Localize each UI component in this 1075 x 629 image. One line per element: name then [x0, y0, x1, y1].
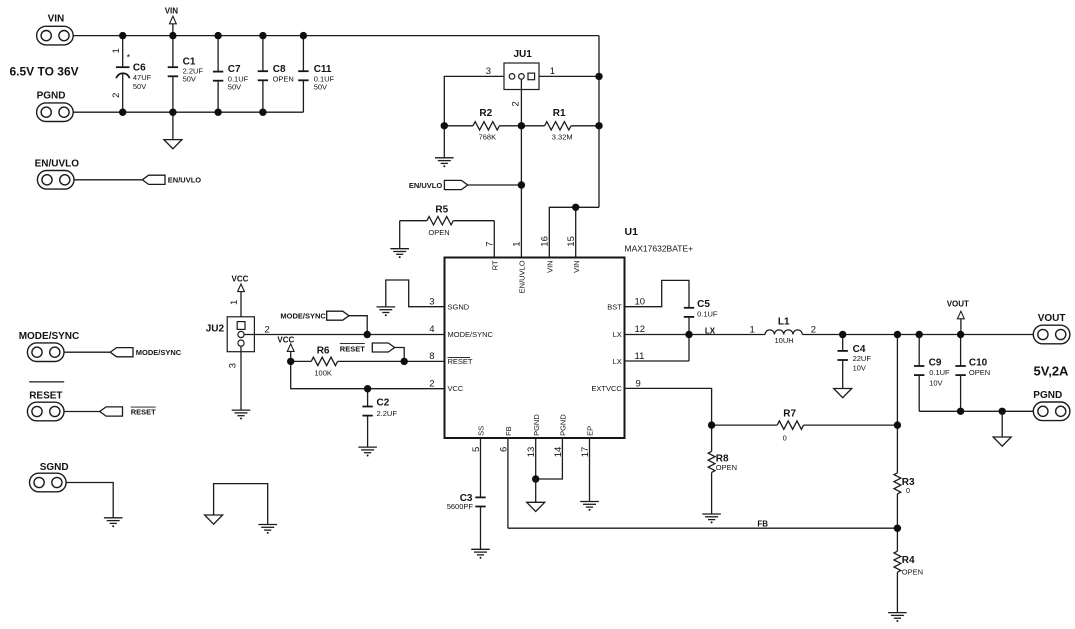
capacitor C9: [914, 335, 950, 412]
svg-text:5600PF: 5600PF: [447, 502, 474, 511]
svg-text:10V: 10V: [853, 363, 866, 372]
wire RESET tag to pin 8: [395, 348, 405, 362]
junction dots PGND rail: [119, 109, 267, 116]
U1 pin numbers left: [429, 296, 434, 389]
resistor R3: [894, 425, 915, 528]
power symbol VIN (top): [165, 7, 179, 36]
ground (R2): [435, 158, 454, 167]
junction dots U1 left area: [287, 331, 408, 393]
capacitor C4: [838, 335, 872, 389]
svg-text:MODE/SYNC: MODE/SYNC: [280, 311, 326, 320]
wire FB net: [508, 527, 898, 529]
svg-text:50V: 50V: [314, 82, 327, 91]
svg-text:SGND: SGND: [40, 462, 69, 473]
jumper JU1: [486, 49, 555, 106]
capacitor C10: [955, 335, 990, 412]
wire U1 pin 11 LX: [625, 360, 690, 362]
svg-text:9: 9: [636, 378, 641, 389]
wire R5 right to U1 pin 7: [493, 221, 495, 258]
U1 pin names top (rotated): [490, 260, 580, 293]
junction dot LX column: [685, 331, 692, 338]
wire U1 pin 17 EP to ground: [589, 438, 591, 501]
wire to VIN pins: [549, 207, 599, 257]
svg-text:*: *: [127, 53, 131, 63]
svg-text:0: 0: [906, 486, 910, 495]
wire PGND pins to ground: [535, 479, 537, 502]
svg-text:3: 3: [429, 296, 434, 307]
svg-text:2: 2: [265, 324, 270, 335]
svg-text:16: 16: [540, 236, 551, 247]
capacitor C11: [298, 36, 334, 113]
svg-text:OPEN: OPEN: [273, 74, 294, 83]
svg-text:JU2: JU2: [206, 323, 225, 334]
U1 pin names right: [591, 302, 622, 393]
ground (C3): [471, 549, 490, 558]
svg-text:8: 8: [429, 351, 434, 362]
svg-text:R4: R4: [902, 555, 915, 566]
wire MODE/SYNC tag to pin 4: [349, 316, 367, 335]
ground triangle (input): [164, 140, 182, 149]
svg-text:768K: 768K: [479, 132, 497, 141]
net tag MODE/SYNC (at U1): [280, 311, 349, 320]
svg-text:OPEN: OPEN: [716, 463, 737, 472]
resistor R8: [708, 425, 737, 514]
svg-text:VIN: VIN: [165, 7, 179, 16]
ground triangle (C4): [834, 389, 852, 398]
svg-text:C8: C8: [273, 64, 286, 75]
terminal VIN: [37, 13, 74, 45]
svg-text:MODE/SYNC: MODE/SYNC: [19, 331, 80, 342]
wire PGND rail: [73, 111, 303, 113]
wire R5 left to ground: [399, 221, 401, 249]
wire EN/UVLO terminal to tag: [74, 179, 142, 181]
svg-text:VIN: VIN: [572, 260, 581, 273]
svg-text:R7: R7: [783, 408, 796, 419]
svg-text:EN/UVLO: EN/UVLO: [168, 176, 202, 185]
wire U1 pins 13/14 PGND: [535, 438, 537, 479]
svg-text:C11: C11: [314, 64, 332, 75]
ground triangle (output): [993, 437, 1011, 446]
ground triangle (pins 13/14): [527, 502, 545, 511]
wire U1 pin 10 BST to C5: [625, 280, 690, 307]
capacitor C1: [168, 36, 204, 113]
svg-text:OPEN: OPEN: [428, 228, 449, 237]
svg-text:C10: C10: [969, 358, 988, 369]
wire JU2 pin 2 to U1 pin 4: [244, 334, 444, 336]
terminal RESET: [27, 382, 64, 421]
ground (EP): [580, 502, 599, 511]
svg-text:SS: SS: [477, 426, 486, 436]
junction dots R7/FB: [708, 421, 901, 532]
svg-text:JU1: JU1: [514, 49, 533, 60]
wire JU2 pin 3 to ground: [240, 346, 242, 410]
terminal MODE/SYNC: [19, 331, 80, 362]
svg-text:EP: EP: [586, 426, 595, 436]
ground (R4): [888, 613, 907, 622]
svg-text:VOUT: VOUT: [947, 300, 969, 309]
U1 pin numbers right: [635, 296, 646, 389]
svg-text:C9: C9: [929, 358, 942, 369]
power symbol VCC (JU2): [232, 274, 249, 316]
junction dots VOUT rail: [839, 331, 964, 338]
svg-text:EXTVCC: EXTVCC: [591, 384, 622, 393]
svg-text:0: 0: [783, 433, 787, 442]
svg-text:VCC: VCC: [277, 336, 294, 345]
wire U1 pin 12 LX to L1: [625, 334, 766, 336]
svg-text:R5: R5: [435, 204, 448, 215]
svg-text:VCC: VCC: [448, 384, 464, 393]
net tag EN/UVLO (at U1): [409, 180, 468, 190]
wire C1 to power ground: [172, 112, 174, 139]
ground (R5): [390, 249, 409, 258]
terminal PGND: [37, 90, 74, 121]
svg-text:2: 2: [510, 101, 521, 106]
svg-text:2: 2: [111, 93, 122, 98]
svg-text:VOUT: VOUT: [1038, 313, 1066, 324]
wire JU1 pin 2 down to U1 pin 1: [520, 79, 522, 257]
terminal EN/UVLO: [35, 159, 80, 190]
svg-text:15: 15: [566, 236, 577, 247]
svg-text:LX: LX: [705, 326, 716, 335]
svg-text:1: 1: [229, 300, 240, 305]
ground triangle (net-tie left): [205, 515, 223, 524]
wire VIN rail drop to JU1/R1 column: [598, 36, 600, 208]
svg-text:L1: L1: [778, 317, 790, 328]
wire SGND terminal to ground: [66, 483, 113, 518]
net tag RESET (left): [100, 407, 156, 417]
svg-text:50V: 50V: [133, 82, 146, 91]
wire U1 pin 9 EXTVCC: [625, 388, 712, 425]
svg-text:2: 2: [811, 324, 816, 335]
U1 pin numbers bottom (rotated): [471, 447, 591, 458]
svg-text:10V: 10V: [929, 379, 942, 388]
U1 pin numbers top (rotated): [485, 236, 577, 247]
svg-text:PGND: PGND: [1033, 390, 1062, 401]
svg-text:5V,2A: 5V,2A: [1034, 364, 1070, 379]
svg-text:SGND: SGND: [448, 302, 470, 311]
svg-text:MODE/SYNC: MODE/SYNC: [448, 330, 494, 339]
wire VOUT column down to R7: [896, 335, 898, 426]
svg-text:PGND: PGND: [532, 414, 541, 436]
svg-text:MAX17632BATE+: MAX17632BATE+: [625, 244, 694, 254]
capacitor C8: [258, 36, 294, 113]
wire VCC drop and U1 pin 2: [291, 361, 445, 388]
svg-text:VCC: VCC: [232, 274, 249, 283]
wire L1 to VOUT terminal: [802, 334, 1033, 336]
svg-text:OPEN: OPEN: [902, 567, 923, 576]
terminal PGND (output): [1033, 390, 1070, 421]
svg-text:VIN: VIN: [545, 260, 554, 273]
svg-text:LX: LX: [613, 330, 622, 339]
svg-text:1: 1: [512, 241, 523, 246]
wire net-tie PGND to SGND: [214, 484, 268, 525]
net tag RESET (at U1): [340, 343, 395, 353]
svg-text:7: 7: [485, 241, 496, 246]
ground (SGND terminal): [104, 518, 123, 527]
svg-text:50V: 50V: [183, 75, 196, 84]
svg-text:1: 1: [750, 324, 755, 335]
svg-text:C2: C2: [377, 398, 390, 409]
ground (pin 3): [377, 307, 396, 316]
svg-text:0.1UF: 0.1UF: [697, 310, 718, 319]
svg-text:47UF: 47UF: [133, 73, 152, 82]
svg-text:10UH: 10UH: [775, 336, 794, 345]
power symbol VOUT: [947, 300, 969, 335]
svg-text:RESET: RESET: [448, 357, 473, 366]
capacitor C5: [684, 299, 718, 361]
junction dots JU1 area: [441, 73, 603, 211]
svg-text:FB: FB: [504, 426, 513, 436]
svg-text:C7: C7: [228, 64, 241, 75]
wire RESET terminal to tag: [64, 411, 100, 413]
svg-text:6.5V TO 36V: 6.5V TO 36V: [10, 64, 79, 78]
ground (net-tie right): [258, 525, 277, 534]
net tag EN/UVLO (left): [142, 175, 201, 185]
svg-text:EN/UVLO: EN/UVLO: [409, 181, 443, 190]
svg-text:R2: R2: [479, 108, 492, 119]
svg-text:BST: BST: [607, 302, 622, 311]
junction dots output PGND rail: [957, 408, 1006, 415]
svg-text:EN/UVLO: EN/UVLO: [35, 159, 80, 170]
resistor R1: [521, 108, 599, 141]
wire output PGND rail: [919, 410, 1033, 412]
svg-text:RESET: RESET: [340, 344, 365, 353]
resistor R6: [291, 346, 445, 378]
inductor L1: [750, 317, 817, 345]
resistor R5: [400, 204, 495, 237]
net tag MODE/SYNC (left): [110, 348, 182, 358]
capacitor C7: [213, 36, 249, 113]
U1 pin names left: [448, 302, 494, 393]
svg-text:OPEN: OPEN: [969, 368, 990, 377]
svg-text:RESET: RESET: [29, 391, 62, 402]
junction dot PGND pins: [532, 475, 539, 482]
svg-text:R6: R6: [317, 346, 330, 357]
wire JU1 pin 1: [539, 75, 599, 77]
wire pin 15: [575, 207, 577, 257]
power symbol VCC (R6): [277, 336, 294, 362]
svg-text:2: 2: [429, 378, 434, 389]
resistor R2: [444, 108, 521, 141]
wire VIN rail: [73, 35, 599, 37]
wire output ground stem: [1001, 411, 1003, 437]
ground (C2): [358, 447, 377, 456]
capacitor C3: [447, 438, 486, 549]
svg-text:50V: 50V: [228, 82, 241, 91]
ground (R8): [702, 514, 721, 523]
svg-text:100K: 100K: [314, 369, 332, 378]
svg-text:PGND: PGND: [559, 414, 568, 436]
ground (JU2): [232, 410, 251, 419]
svg-text:VIN: VIN: [48, 13, 65, 24]
svg-text:RESET: RESET: [131, 408, 156, 417]
op-amp U1 MAX17632BATE+ body: [445, 226, 694, 438]
wire MODE/SYNC terminal to tag: [64, 351, 110, 353]
svg-text:10: 10: [635, 296, 646, 307]
terminal SGND: [30, 462, 69, 492]
wire R2 left to ground: [443, 126, 445, 158]
jumper JU2: [206, 300, 270, 368]
svg-text:R1: R1: [553, 108, 566, 119]
wire U1 pin 6 FB down: [507, 438, 509, 528]
svg-text:3: 3: [228, 363, 239, 368]
resistor R7: [712, 408, 898, 442]
svg-text:0.1UF: 0.1UF: [929, 368, 950, 377]
svg-text:FB: FB: [757, 519, 768, 528]
svg-text:U1: U1: [625, 226, 639, 238]
capacitor C6 (electrolytic): [111, 36, 151, 113]
wire EN/UVLO tag to pin 1 column: [468, 184, 522, 186]
wire U1 pin 3 SGND loop to ground: [386, 280, 445, 307]
svg-text:22UF: 22UF: [853, 354, 872, 363]
svg-text:1: 1: [111, 48, 122, 53]
svg-text:3: 3: [486, 66, 491, 77]
U1 pin names bottom (rotated): [477, 414, 595, 436]
svg-text:EN/UVLO: EN/UVLO: [518, 260, 527, 293]
svg-text:4: 4: [429, 324, 434, 335]
svg-text:MODE/SYNC: MODE/SYNC: [136, 348, 182, 357]
svg-text:12: 12: [635, 324, 646, 335]
svg-text:PGND: PGND: [37, 90, 66, 101]
wire JU1 pin 3: [444, 76, 504, 125]
svg-text:2.2UF: 2.2UF: [377, 409, 398, 418]
svg-text:1: 1: [550, 66, 555, 77]
capacitor C2: [362, 389, 397, 447]
svg-text:RT: RT: [490, 260, 499, 270]
junction dots VIN rail: [119, 32, 307, 39]
svg-text:LX: LX: [613, 357, 622, 366]
terminal VOUT: [1033, 313, 1070, 344]
svg-text:3.32M: 3.32M: [552, 132, 573, 141]
resistor R4: [894, 528, 923, 612]
